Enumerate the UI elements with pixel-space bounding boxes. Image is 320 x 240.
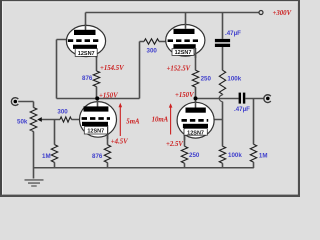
svg-text:250: 250: [189, 152, 200, 159]
svg-text:12SN7: 12SN7: [78, 51, 95, 57]
svg-text:+150V: +150V: [175, 92, 194, 99]
svg-text:+2.5V: +2.5V: [166, 141, 183, 148]
svg-text:12SN7: 12SN7: [187, 130, 204, 136]
svg-text:.47µF: .47µF: [225, 30, 241, 37]
svg-text:50k: 50k: [17, 118, 28, 125]
svg-text:876: 876: [92, 153, 103, 160]
svg-text:+154.5V: +154.5V: [100, 65, 124, 72]
svg-text:.47µF: .47µF: [234, 106, 250, 113]
svg-text:100k: 100k: [227, 75, 241, 82]
svg-text:+4.5V: +4.5V: [111, 139, 128, 146]
svg-text:12SN7: 12SN7: [87, 129, 104, 135]
svg-text:250: 250: [201, 75, 212, 82]
svg-text:+152.5V: +152.5V: [167, 65, 191, 72]
svg-text:876: 876: [82, 75, 93, 82]
svg-text:+150V: +150V: [99, 93, 118, 100]
svg-text:12SN7: 12SN7: [175, 50, 192, 56]
svg-text:1M: 1M: [42, 153, 51, 160]
svg-text:100k: 100k: [228, 152, 242, 159]
svg-text:300: 300: [57, 108, 68, 115]
svg-text:5mA: 5mA: [126, 119, 140, 126]
svg-text:1M: 1M: [259, 153, 268, 160]
svg-text:300: 300: [147, 47, 158, 54]
svg-text:10mA: 10mA: [152, 117, 169, 124]
svg-text:+300V: +300V: [273, 10, 292, 17]
